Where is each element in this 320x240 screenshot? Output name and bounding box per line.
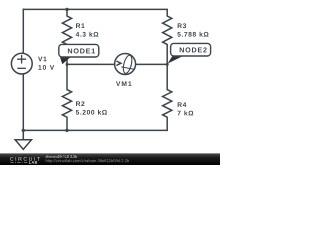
footer text line 1 bbox=[46, 155, 77, 158]
wire bottom rail bbox=[23, 129, 167, 131]
node NODE2 flag bbox=[168, 43, 211, 63]
label R2 bbox=[76, 101, 84, 106]
label 4.3 kOhm bbox=[76, 32, 99, 37]
voltmeter VM1 bbox=[115, 54, 136, 75]
wire top rail bbox=[23, 8, 167, 10]
label R3 bbox=[178, 23, 186, 28]
footer CircuitLab logo CIRCUIT bbox=[10, 157, 40, 161]
wire left rail lower bbox=[22, 74, 24, 130]
label R4 bbox=[178, 102, 187, 107]
wire middle right VM1 to NODE2 bbox=[136, 63, 168, 65]
voltage source V1 bbox=[11, 53, 32, 74]
label 5.788 kOhm bbox=[177, 32, 208, 37]
label V1 bbox=[38, 57, 47, 62]
node NODE1 flag bbox=[59, 44, 99, 64]
resistor R3 bbox=[163, 9, 172, 64]
junction NODE1 point bbox=[66, 63, 69, 66]
label 10 V bbox=[38, 65, 54, 70]
ground bbox=[15, 130, 31, 149]
junction NODE2 point bbox=[166, 63, 169, 66]
footer logo LAB bbox=[29, 161, 37, 164]
junction bottom-left ground bbox=[22, 129, 25, 132]
footer text line 2 bbox=[46, 159, 129, 163]
footer logo underline marks bbox=[11, 161, 28, 164]
junction top R1/top rail bbox=[65, 8, 68, 11]
junction bottom R2/bottom rail bbox=[65, 129, 68, 132]
resistor R2 bbox=[62, 64, 71, 130]
resistor R4 bbox=[163, 64, 172, 130]
label 5.200 kOhm bbox=[76, 110, 107, 115]
wire middle left NODE1 to VM1 bbox=[67, 63, 115, 65]
resistor R1 bbox=[62, 9, 71, 64]
label R1 bbox=[76, 23, 85, 28]
wire left rail upper bbox=[22, 9, 24, 53]
label 7 kOhm bbox=[177, 111, 193, 116]
label VM1 bbox=[116, 81, 132, 86]
